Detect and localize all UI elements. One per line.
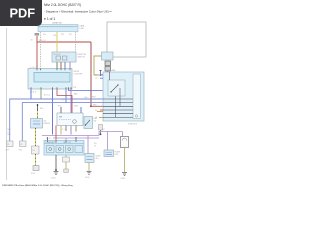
strip C1 right labels: [80, 25, 85, 31]
svg-text:K19: K19: [43, 34, 46, 36]
relay box G2cyan: [104, 150, 114, 157]
svg-text:Mhz 2.0L DOHC (B207 R): Mhz 2.0L DOHC (B207 R): [44, 3, 81, 7]
wire purple drop to H: [122, 132, 124, 137]
svg-text:G103: G103: [121, 178, 125, 180]
wire tan below F 1: [60, 126, 62, 135]
PDF badge: [0, 0, 42, 26]
svg-text:LAMP 12V: LAMP 12V: [63, 141, 72, 144]
fuse box top label: [108, 69, 115, 72]
header title text line 1: [44, 3, 81, 7]
svg-text:2 1 3 5: 2 1 3 5: [46, 138, 52, 140]
large empty component box top-right: [107, 22, 146, 57]
wire red into F: [57, 89, 72, 113]
svg-text:30: 30: [31, 40, 33, 42]
bus wire blue lower: [22, 103, 103, 141]
cluster U1 top pin labels: [30, 67, 38, 69]
yellow wire label: [53, 35, 57, 37]
svg-text:CLUSTER: CLUSTER: [74, 74, 83, 76]
maroon stub labels: [90, 97, 96, 108]
fuse box left stub orange 1: [97, 111, 103, 113]
fusible link box C: [102, 52, 114, 60]
svg-text:PDF: PDF: [10, 5, 36, 20]
data link connector strip C1: [38, 22, 78, 32]
internal wire fuse box vertical 2: [119, 88, 121, 106]
bus wire blue upper: [10, 99, 103, 141]
connector symbol box: [105, 61, 111, 71]
instrument cluster box U1: [28, 69, 72, 90]
wire blue pair drop b: [69, 89, 104, 91]
wire dark below F: [65, 126, 67, 132]
wire blue into F: [80, 107, 82, 113]
inline label on tan wire: [63, 157, 70, 162]
wire yellow dotted upper: [37, 110, 39, 119]
wire red S1 to cluster: [60, 62, 62, 69]
wire blue cluster drop 2: [52, 89, 54, 135]
ground G1: [51, 172, 59, 180]
sensor box B1 labels: [44, 121, 51, 126]
svg-text:0.5: 0.5: [62, 100, 64, 102]
page left border line: [6, 28, 8, 180]
relay sub box inside fuse box: [108, 80, 125, 96]
wire red feed vertical: [36, 36, 38, 69]
svg-text:BLU 0.5: BLU 0.5: [44, 95, 50, 97]
wire red feed horizontal: [37, 41, 91, 43]
fuse and relay box label: [113, 70, 116, 72]
svg-text:1 2 4: 1 2 4: [62, 129, 66, 131]
mid text block right of E: [94, 143, 97, 147]
dashed option wire: [40, 32, 42, 69]
svg-text:SWITCH: SWITCH: [78, 57, 86, 59]
wire olive below F: [75, 126, 77, 132]
svg-text:SW: SW: [59, 117, 62, 119]
sensor wire black top: [37, 104, 39, 110]
wire blue into fuse box top: [99, 70, 102, 76]
svg-text:K20: K20: [61, 34, 64, 36]
wire dark into E right: [75, 137, 77, 141]
wire tan E drop lower: [64, 162, 69, 173]
wire black into E: [47, 137, 49, 141]
svg-text:K21: K21: [69, 34, 72, 36]
wire yellow dotted lower: [35, 128, 37, 146]
sensor box B1: [31, 119, 43, 129]
svg-text:30: 30: [95, 75, 97, 77]
page background: [0, 0, 149, 198]
svg-text:C9: C9: [32, 150, 34, 152]
ignition switch box S1: [52, 52, 76, 62]
switch K label box: [94, 117, 97, 122]
terminal row 4: [103, 109, 133, 111]
terminal row 6: [103, 116, 133, 118]
wire green S1 to cluster: [56, 62, 58, 69]
labels below F: [62, 129, 66, 131]
svg-text:RED 0.5: RED 0.5: [39, 40, 46, 42]
internal wire fuse box vertical 1: [115, 96, 117, 118]
labels below strip: [43, 34, 72, 36]
svg-text:C2: C2: [74, 87, 76, 89]
fuse box left stub blue 2: [100, 77, 103, 79]
svg-text:LINK: LINK: [80, 28, 85, 30]
svg-text:G101: G101: [51, 178, 56, 180]
fuse box left stub orange 2: [99, 116, 103, 118]
red feed horizontal label: [31, 40, 46, 43]
wire tan H to ground: [124, 148, 126, 173]
wire maroon feed vertical: [90, 42, 92, 106]
connector stub right of K: [99, 125, 103, 136]
sensor wire label: [40, 108, 44, 110]
fuse box bottom labels: [128, 124, 138, 126]
left bus wire labels: [8, 129, 12, 136]
svg-text:FUSE BOX: FUSE BOX: [128, 124, 138, 126]
bus wire purple second: [53, 137, 99, 139]
bus wire purple right segment: [99, 132, 123, 136]
fuse box corner terminal: [135, 115, 137, 117]
svg-text:1 4 7 9 12: 1 4 7 9 12: [30, 67, 38, 69]
svg-text:1 2 3 4 5 6 7 8 9 11 13 15: 1 2 3 4 5 6 7 8 9 11 13 15: [40, 27, 74, 29]
svg-text:S101: S101: [31, 173, 35, 175]
svg-text:15: 15: [95, 78, 97, 80]
G1 right labels: [96, 156, 101, 160]
fuse box left labels: [95, 75, 97, 120]
svg-text:PRESS: PRESS: [44, 123, 51, 125]
svg-text:- Diagrams > Electrical: Inter: - Diagrams > Electrical: Interactive Col…: [44, 10, 111, 14]
svg-text:C1: C1: [7, 144, 9, 146]
wire green cluster drop: [40, 89, 42, 99]
wire yellow from strip: [56, 32, 58, 52]
wire violet cluster drop: [70, 89, 72, 135]
switch box K: [84, 117, 93, 129]
wire tan E drop: [65, 155, 67, 157]
wire blue S1 to cluster: [64, 62, 66, 69]
switch S1 right labels: [78, 54, 87, 59]
wire red into E: [55, 126, 57, 141]
svg-text:UNIT: UNIT: [115, 154, 119, 156]
dashed wire strip to S1: [75, 32, 77, 52]
wire connector to fuse box: [107, 71, 109, 73]
wire black into F: [58, 106, 62, 114]
red feed top tick label: [35, 33, 40, 36]
horn box H: [121, 137, 129, 148]
svg-text:C2: C2: [20, 144, 22, 146]
svg-text:INST: INST: [6, 150, 10, 152]
terminal row 5: [103, 113, 133, 115]
internal wire fuse box top: [109, 72, 111, 80]
header title text line 2: [44, 10, 111, 14]
connector label box left 1: [6, 141, 14, 152]
fuse box left stub red: [100, 109, 103, 111]
svg-text:INST: INST: [19, 150, 23, 152]
svg-text:1998 BMW 228i xDrive (B46/4.4M: 1998 BMW 228i xDrive (B46/4.4Mhz 2.0L DO…: [2, 184, 73, 187]
red stub into fuse box: [91, 105, 103, 107]
wire tan G1 to ground: [88, 163, 90, 171]
svg-text:G102: G102: [85, 177, 89, 179]
splice label: [31, 173, 35, 175]
svg-text:DATA LINK: DATA LINK: [52, 22, 63, 25]
svg-text:RELAY: RELAY: [108, 69, 115, 72]
connector label box left 2: [19, 141, 27, 152]
G2cyan right labels: [115, 151, 121, 156]
connector box G1: [85, 154, 94, 163]
mid area labels: [44, 94, 79, 108]
terminal row 2: [103, 102, 133, 104]
wire purple drop to G2cyan: [107, 132, 109, 151]
terminal row 3: [103, 105, 133, 107]
blue stub into fuse box: [85, 97, 89, 99]
svg-text:e 1 of 1: e 1 of 1: [44, 17, 55, 21]
switch module box F: [57, 113, 83, 126]
ground G3: [121, 173, 128, 181]
cluster U1 bottom pin labels: [30, 92, 36, 94]
svg-text:YEL: YEL: [53, 35, 57, 37]
splice connector S: [33, 166, 39, 171]
header page-number text: [44, 17, 55, 21]
fuse box left stub blue 1: [100, 74, 103, 76]
cluster U1 right labels: [74, 71, 83, 89]
svg-text:SW: SW: [94, 120, 97, 122]
bus wire purple main: [42, 134, 99, 136]
svg-text:30 15 50: 30 15 50: [54, 54, 61, 56]
label above purple jog: [102, 129, 106, 131]
ground G2: [85, 171, 92, 179]
tan wire loop near fuse box: [94, 56, 103, 75]
svg-text:58: 58: [95, 117, 97, 119]
fuse relay box outer: [103, 72, 144, 121]
wire purple drop to G: [87, 135, 89, 153]
wire blue pair drop a: [65, 89, 67, 103]
footer text: [2, 184, 73, 187]
svg-text:56: 56: [95, 110, 97, 112]
wire black E to ground: [55, 155, 57, 171]
terminal row 1: [103, 98, 133, 100]
wire blue cluster drop 1: [30, 89, 32, 99]
inline connector box D: [32, 146, 40, 154]
wire purple drop to E: [65, 138, 67, 141]
labels above box E: [46, 138, 52, 140]
combination lamp box E: [44, 141, 84, 156]
wire violet S1 to cluster: [69, 62, 71, 69]
wire yellow to ground: [35, 154, 37, 166]
